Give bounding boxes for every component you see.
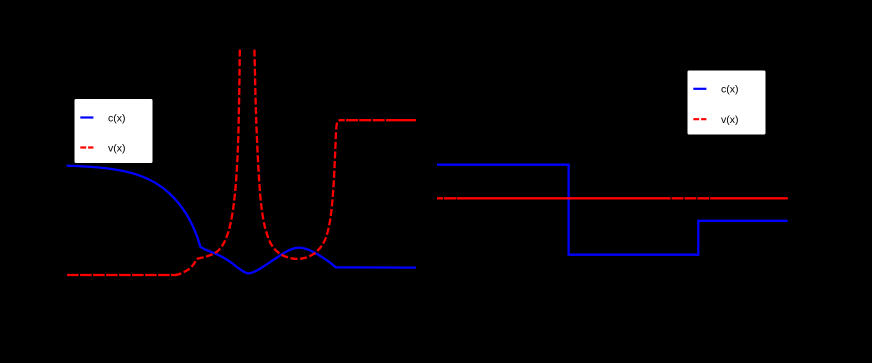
curve c(x) blue right (step function) [437, 165, 788, 255]
curve v(x) red left: plateau dash segments [340, 119, 417, 121]
legend box left [74, 99, 153, 164]
curve v(x) red left: spike right side, dip, rise to plateau (dashed) [254, 50, 340, 259]
curve c(x) blue left [67, 166, 417, 274]
svg-text:c(x): c(x) [108, 112, 126, 124]
svg-text:v(x): v(x) [108, 142, 126, 154]
legend box right [687, 70, 766, 135]
curve v(x) red right (horizontal line with sparse dash gaps) [437, 197, 788, 199]
svg-text:v(x): v(x) [721, 114, 739, 126]
curve v(x) red left: flat left segment (dashed) [67, 274, 176, 276]
svg-text:c(x): c(x) [721, 84, 739, 96]
curve v(x) red left: spike left side down to flat (dashed, clipped at axes top) [176, 50, 240, 275]
